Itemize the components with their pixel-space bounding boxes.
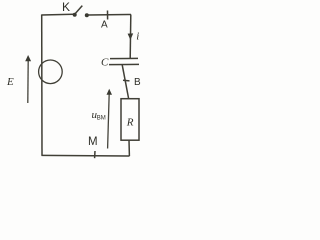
switch K right contact dot [85, 13, 89, 17]
wire capacitor to resistor [122, 65, 129, 99]
switch K blade [75, 6, 82, 14]
svg-text:M: M [88, 136, 98, 148]
svg-text:E: E [6, 76, 14, 88]
wire right vertical upper [129, 15, 132, 59]
svg-text:K: K [62, 0, 70, 14]
svg-text:i: i [136, 31, 139, 43]
wire resistor to bottom [128, 140, 130, 156]
E reference arrow [27, 61, 29, 104]
capacitor C top plate [110, 57, 138, 59]
wire bottom horizontal [42, 154, 130, 157]
wire top-left horizontal [42, 13, 74, 16]
svg-text:A: A [101, 20, 108, 31]
wire top-right horizontal [88, 14, 131, 17]
switch K left contact dot [73, 13, 77, 17]
current i arrow on right wire [128, 33, 134, 40]
uBM reference arrow [108, 93, 110, 149]
svg-text:C: C [101, 57, 109, 69]
svg-text:R: R [126, 117, 134, 129]
svg-text:BM: BM [97, 116, 106, 122]
wire left vertical [41, 15, 43, 156]
capacitor C bottom plate [109, 63, 139, 65]
node A tick [107, 11, 109, 20]
svg-text:B: B [134, 77, 141, 88]
resistor R body [121, 99, 139, 141]
node M tick [94, 151, 96, 158]
node B tick [123, 79, 130, 82]
EMF source E circle [39, 60, 63, 84]
